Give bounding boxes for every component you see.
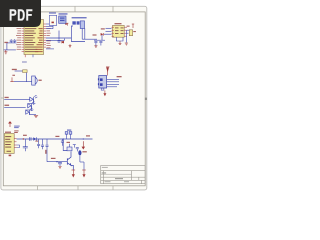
MCU U1 bbox=[24, 20, 44, 55]
power flag left of J1 bbox=[66, 23, 68, 25]
junction dot bbox=[23, 138, 24, 139]
USB J2 ground bottom bbox=[104, 90, 106, 95]
capacitor on riser bbox=[58, 41, 61, 43]
capacitor at base bbox=[58, 162, 62, 166]
USB shell tab bbox=[101, 88, 104, 90]
resistor network below bbox=[67, 144, 79, 152]
capacitor pair C5 C6 bbox=[94, 40, 105, 45]
LED row wire 2 bbox=[4, 107, 26, 109]
buzzer top wire bbox=[15, 71, 28, 82]
power arrow down bbox=[82, 141, 84, 149]
USB connector J2 bbox=[98, 76, 107, 89]
mark below CN1 bbox=[9, 155, 12, 157]
red label above Q1 pin bbox=[127, 26, 130, 27]
transistor Q1 bbox=[129, 30, 136, 36]
buzzer input flag bbox=[10, 77, 14, 81]
LED D2 bbox=[30, 95, 38, 103]
wire left of U1 row bbox=[4, 43, 17, 50]
USB J2 pins bbox=[107, 79, 119, 87]
sheet inner frame bbox=[3, 12, 145, 186]
USB connector J2 power flag top bbox=[106, 67, 110, 76]
small label mid bbox=[12, 75, 15, 76]
capacitor C7 bbox=[23, 139, 28, 151]
wire from U1 lower right pin bbox=[46, 48, 54, 50]
inductor L1 bbox=[65, 132, 72, 139]
series capacitor on power wire bbox=[30, 137, 31, 141]
capacitor C8a bbox=[37, 139, 40, 148]
USB pin1 net label bbox=[117, 76, 122, 77]
power flag above CN1 bbox=[9, 122, 12, 127]
connector CN1 refdes bbox=[5, 132, 11, 133]
wire Q2 blob link bbox=[80, 162, 84, 170]
transistor Q2 bbox=[67, 151, 73, 170]
bus wires right of U1 bbox=[46, 31, 71, 41]
ground lower-left of U1 bbox=[4, 50, 7, 54]
net label Q2 base bbox=[51, 158, 56, 159]
junction dot b bbox=[63, 138, 64, 139]
connector J1 label bbox=[72, 17, 87, 18]
U2 pin stubs bbox=[112, 27, 128, 36]
crystal box Y2 bbox=[59, 16, 66, 23]
wires into U2 bbox=[102, 28, 112, 40]
series resistor on buzzer wire bbox=[23, 70, 28, 73]
PDF badge bbox=[0, 0, 41, 27]
capacitor cluster left of U1 bbox=[10, 39, 17, 43]
capacitor C9 bbox=[41, 139, 44, 149]
diode D5 on power wire bbox=[33, 137, 36, 140]
LED D4 bbox=[26, 108, 36, 115]
label above Y2 bbox=[59, 13, 68, 14]
title block bbox=[101, 166, 146, 184]
LED row net label 2 bbox=[5, 105, 10, 106]
wire U1 to Y1 bbox=[46, 24, 53, 29]
LED row net label 1 bbox=[5, 97, 9, 98]
LED row wire 1 bbox=[4, 98, 30, 100]
main power wire bbox=[17, 138, 93, 140]
junction dot c bbox=[83, 138, 84, 139]
ground flag A bottom bbox=[72, 170, 76, 177]
net label left wire bbox=[4, 42, 7, 43]
inductor L1 label bbox=[67, 130, 71, 131]
net label vertical near C8 bbox=[45, 150, 46, 154]
buzzer bottom wire bbox=[14, 81, 32, 83]
ground below cap pair bbox=[94, 46, 97, 48]
capacitor blob near Q2 bbox=[78, 150, 87, 162]
op-amp U2 refdes bbox=[115, 23, 122, 24]
ground below base cap bbox=[58, 167, 61, 169]
wire J1 down bbox=[82, 28, 97, 39]
wire loop below U2 bbox=[117, 30, 130, 42]
U1 left pin stubs bbox=[22, 29, 24, 52]
buzzer LS1 bbox=[32, 76, 42, 85]
U1 pin name texts bbox=[25, 28, 43, 52]
blue note text bbox=[14, 126, 20, 129]
U1 right net labels bbox=[46, 28, 50, 48]
connector CN1 bbox=[4, 134, 14, 154]
power flag right of U2 bbox=[132, 24, 134, 28]
ground mid bbox=[69, 44, 72, 47]
wires from CN1 lower pins bbox=[17, 145, 20, 148]
wire down from power rail bbox=[63, 139, 67, 151]
ground below U2 bbox=[119, 41, 122, 45]
LED D3 bbox=[28, 102, 36, 110]
U1 bottom exits bbox=[22, 55, 33, 63]
connector J1 bbox=[72, 21, 84, 29]
crystal box Y1 bbox=[49, 15, 56, 25]
red diode near U2 bbox=[101, 28, 105, 35]
red label below L1 bbox=[67, 142, 71, 143]
capacitor C10 bbox=[61, 139, 64, 146]
CN1 pin stubs bbox=[14, 139, 16, 148]
red bowtie component bbox=[62, 41, 65, 44]
net labels above power wire bbox=[14, 130, 90, 141]
wire J1 left leg bbox=[71, 26, 85, 42]
ground flag B bottom bbox=[82, 170, 86, 177]
red pin mark below Y2 bbox=[65, 23, 67, 24]
page sheet bbox=[1, 6, 147, 190]
ground right of U2 bbox=[125, 43, 128, 45]
ground below LEDs bbox=[34, 115, 38, 117]
U1 left net labels bbox=[16, 28, 21, 50]
red label left of U2 bbox=[93, 34, 97, 35]
base wire bbox=[47, 161, 67, 162]
capacitor C8 bbox=[46, 139, 49, 162]
op-amp U2 bbox=[113, 25, 125, 37]
U1 right pin stubs bbox=[44, 24, 47, 47]
zone ticks bbox=[1, 6, 147, 189]
label above Y1 bbox=[49, 12, 56, 13]
buzzer net label top bbox=[12, 69, 17, 70]
